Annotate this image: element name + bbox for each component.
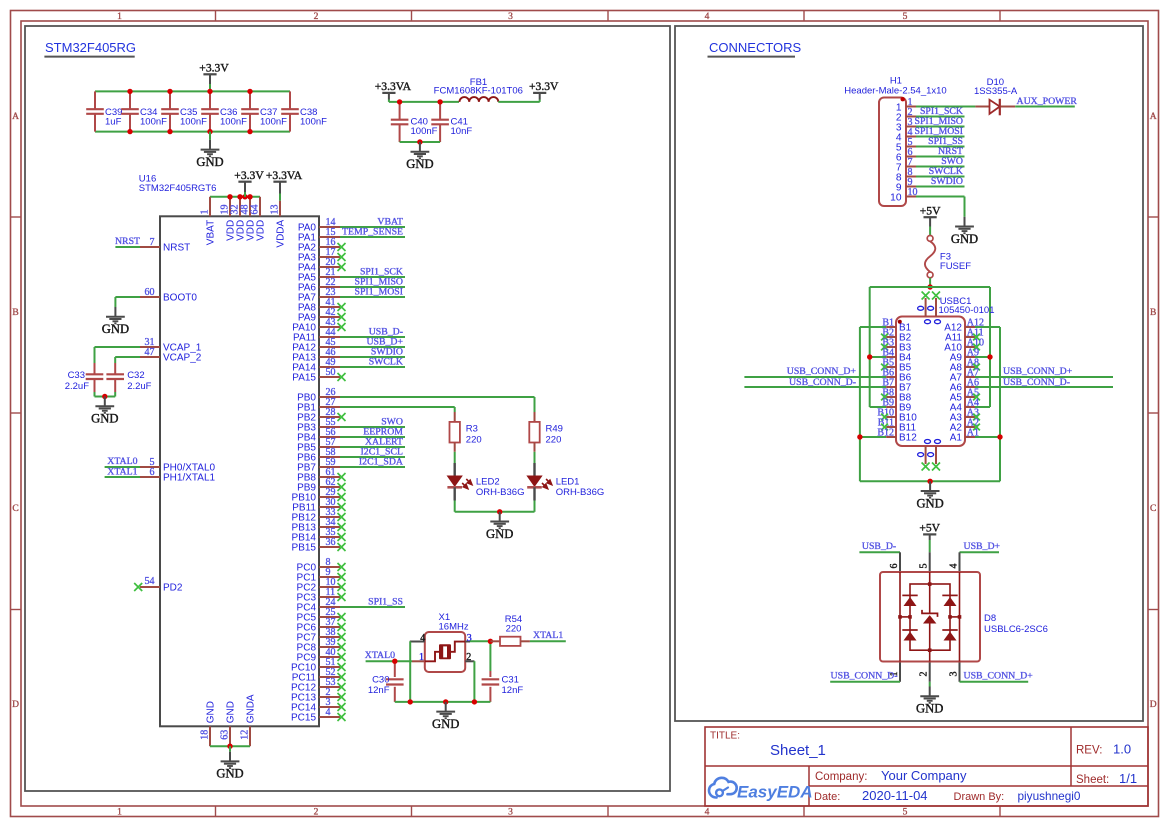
- no-connect PA15: [338, 373, 346, 381]
- capacitor C39: [86, 91, 122, 131]
- mcu pin PB15 36: [292, 537, 340, 553]
- resistor R54: [490, 614, 530, 646]
- ground crystal: [432, 702, 459, 731]
- usb pin B3: [882, 337, 911, 353]
- usb pin B6: [882, 367, 911, 383]
- usb pin A5: [950, 387, 979, 403]
- ground leds: [486, 512, 513, 541]
- no-connect PB9: [338, 483, 346, 491]
- wire +3.3V rail top of cap bank: [95, 90, 290, 92]
- wire +3.3V mcu stem: [244, 182, 246, 197]
- mcu pin PC10 51: [291, 657, 340, 673]
- diode D10 1SS355-A: [974, 77, 1018, 116]
- svg-text:Header-Male-2.54_1x10: Header-Male-2.54_1x10: [844, 85, 946, 96]
- left section title STM32F405RG: [44, 40, 136, 57]
- no-connect shield top: [922, 292, 940, 300]
- wire PA12 net USB_D+: [340, 346, 405, 348]
- svg-text:105450-0101: 105450-0101: [939, 305, 995, 316]
- crystal pin1 stub: [412, 660, 425, 662]
- svg-text:SPI1_MOSI: SPI1_MOSI: [355, 286, 403, 297]
- svg-text:4: 4: [705, 808, 710, 818]
- mcu pin PA12 45: [292, 337, 340, 353]
- power +3.3VA filter: [375, 80, 412, 93]
- svg-text:AUX_POWER: AUX_POWER: [1017, 96, 1078, 107]
- no-connect PB10: [338, 493, 346, 501]
- svg-text:4: 4: [949, 564, 960, 569]
- mcu pin PA9 42: [298, 307, 340, 323]
- wire PA6 net SPI1_MISO: [340, 286, 405, 288]
- led LED1: [527, 452, 604, 512]
- svg-text:XTAL1: XTAL1: [107, 466, 137, 477]
- junctions crystal circuit: [392, 639, 493, 705]
- capacitor C30: [368, 661, 404, 702]
- title block REV: [1076, 742, 1131, 757]
- svg-text:PA15: PA15: [292, 372, 316, 383]
- usb pin B11: [878, 417, 917, 433]
- svg-text:A: A: [12, 112, 19, 122]
- wire PC4 net SPI1_SS: [340, 606, 405, 608]
- no-connect shield bottom: [922, 463, 940, 471]
- svg-text:18: 18: [199, 730, 210, 740]
- wire USB_CONN_D- from D8 pin1: [830, 681, 900, 683]
- usb pin A2: [950, 417, 979, 433]
- wire USB_CONN_D+ right: [975, 376, 1113, 378]
- mcu pin VCAP_1 31: [140, 337, 202, 354]
- header H1 pin 9: [896, 177, 916, 193]
- svg-text:TITLE:: TITLE:: [710, 731, 740, 742]
- wire SPI1_SS from PC4: [0, 0, 1, 1]
- svg-text:5: 5: [919, 564, 930, 569]
- resistor R49: [529, 412, 563, 452]
- svg-text:2.2uF: 2.2uF: [127, 381, 151, 392]
- svg-text:3: 3: [467, 633, 472, 644]
- wire PA7 net SPI1_MOSI: [340, 296, 405, 298]
- svg-text:1.0: 1.0: [1113, 742, 1131, 757]
- usb pin A1: [950, 427, 979, 443]
- led LED2: [447, 452, 524, 512]
- capacitor C40: [391, 102, 438, 142]
- svg-text:100nF: 100nF: [260, 116, 287, 127]
- svg-text:1: 1: [199, 210, 210, 215]
- svg-text:6: 6: [889, 564, 900, 569]
- wire +5V to D8 pin5: [929, 534, 931, 552]
- title block Company: [815, 768, 967, 783]
- svg-text:220: 220: [546, 435, 562, 446]
- mcu pin PC6 37: [297, 617, 340, 633]
- mcu U16 reference labels: [139, 174, 217, 194]
- svg-text:SWCLK: SWCLK: [369, 356, 403, 367]
- capacitor C37: [241, 91, 287, 131]
- mcu bottom pin GNDA 12: [239, 694, 256, 746]
- capacitor C35: [161, 91, 207, 131]
- wire +3.3V stem: [209, 74, 211, 91]
- wire USB_CONN_D+ left: [744, 376, 886, 378]
- svg-text:C: C: [1150, 504, 1156, 514]
- svg-text:GND: GND: [406, 157, 433, 171]
- svg-text:+3.3V: +3.3V: [529, 80, 559, 93]
- svg-text:ORH-B36G: ORH-B36G: [476, 487, 525, 498]
- header H1 pin 4: [896, 127, 916, 143]
- no-connect PC5: [338, 613, 346, 621]
- mcu top pin VDD 19: [219, 197, 236, 241]
- svg-text:USB_CONN_D-: USB_CONN_D-: [831, 670, 898, 681]
- svg-text:D: D: [1150, 700, 1157, 710]
- wire PA14 net SWCLK: [340, 366, 405, 368]
- mcu pin PA8 41: [298, 297, 340, 313]
- svg-text:2: 2: [314, 808, 319, 818]
- ground USBC1: [916, 481, 943, 510]
- svg-text:SWDIO: SWDIO: [931, 176, 963, 187]
- svg-text:STM32F405RG: STM32F405RG: [45, 40, 136, 55]
- mcu top pin VDDA 13: [269, 182, 286, 248]
- svg-text:50: 50: [326, 367, 336, 378]
- wire mcu ground rail: [210, 745, 250, 747]
- no-connect PB15: [338, 543, 346, 551]
- mcu pin BOOT0 60: [140, 287, 197, 304]
- mcu pin PB2 28: [297, 407, 340, 423]
- left section box STM32F405RG: [25, 26, 670, 791]
- ground cap bank: [196, 132, 223, 169]
- mcu pin PB14 35: [292, 527, 340, 543]
- svg-text:2.2uF: 2.2uF: [65, 381, 89, 392]
- no-connect PC6: [338, 623, 346, 631]
- svg-text:VCAP_2: VCAP_2: [163, 353, 202, 364]
- header H1 pin 6: [896, 147, 916, 163]
- junctions on cap bank rails: [127, 89, 252, 135]
- svg-text:USB_D+: USB_D+: [964, 541, 1001, 552]
- frame column ticks bottom: [216, 806, 1001, 817]
- svg-text:PD2: PD2: [163, 583, 183, 594]
- svg-text:TEMP_SENSE: TEMP_SENSE: [342, 226, 403, 237]
- usb pin B5: [882, 357, 911, 373]
- no-connect B8: [881, 394, 888, 401]
- svg-text:+3.3V: +3.3V: [199, 62, 229, 75]
- no-connect PC1: [338, 573, 346, 581]
- svg-text:XTAL1: XTAL1: [533, 630, 563, 641]
- svg-text:7: 7: [150, 237, 155, 248]
- svg-text:GND: GND: [486, 527, 513, 541]
- svg-text:GND: GND: [102, 322, 129, 336]
- wire +5V to fuse: [929, 217, 931, 235]
- svg-text:D: D: [12, 700, 19, 710]
- svg-text:B12: B12: [877, 427, 894, 438]
- mcu pin VCAP_2 47: [140, 347, 202, 364]
- wire XTAL0 stub: [105, 466, 140, 468]
- usb pin B1: [882, 317, 911, 333]
- svg-text:BOOT0: BOOT0: [163, 293, 197, 304]
- mcu pin PA3 17: [298, 247, 340, 263]
- wire +3.3VA stem and rail: [389, 93, 459, 102]
- wire VBUS box around USBC1: [870, 287, 990, 407]
- mcu pin PB9 62: [297, 477, 340, 493]
- svg-text:NRST: NRST: [163, 243, 190, 254]
- capacitor C32: [106, 363, 151, 392]
- mcu top pin VDD 64: [249, 197, 266, 241]
- mcu pin PA14 49: [292, 357, 340, 373]
- mcu bottom pin GND 63: [219, 701, 236, 746]
- mcu pin PB10 29: [292, 487, 340, 503]
- wire crystal pin4 to ground rail: [409, 641, 411, 702]
- mcu pin PC15 4: [291, 707, 340, 723]
- svg-text:100nF: 100nF: [411, 126, 438, 137]
- junction fuse rail: [927, 284, 932, 289]
- svg-text:PB15: PB15: [292, 542, 317, 553]
- svg-text:CONNECTORS: CONNECTORS: [709, 40, 802, 55]
- mcu pin PC14 3: [291, 697, 340, 713]
- wire fuse to usb connector rail: [929, 278, 931, 287]
- capacitor C38: [281, 91, 327, 131]
- svg-text:USBLC6-2SC6: USBLC6-2SC6: [984, 624, 1048, 635]
- wire VDD top bus: [210, 196, 260, 198]
- svg-text:1uF: 1uF: [105, 116, 122, 127]
- no-connect PC0: [338, 563, 346, 571]
- no-connect PB11: [338, 503, 346, 511]
- wire VCAP ground rail: [95, 392, 116, 397]
- svg-text:GND: GND: [216, 767, 243, 781]
- mcu pin PA1 15: [298, 227, 340, 243]
- svg-text:4: 4: [326, 707, 331, 718]
- svg-text:GND: GND: [951, 232, 978, 246]
- power +5V header area: [920, 205, 941, 218]
- wire H1 pin4: [916, 136, 965, 138]
- svg-text:LED1: LED1: [556, 477, 580, 488]
- svg-text:A: A: [1150, 112, 1157, 122]
- mcu pin PA0 14: [298, 217, 340, 233]
- wire H1 pin8: [916, 176, 965, 178]
- right section box CONNECTORS: [675, 26, 1143, 721]
- ground BOOT0: [102, 307, 129, 336]
- wire PB4 net EEPROM: [340, 436, 405, 438]
- wire D10 to AUX_POWER: [1015, 106, 1075, 108]
- wire FB1 to +3.3V: [498, 101, 539, 103]
- mcu U16 STM32F405RGT6 body: [160, 216, 319, 726]
- svg-text:B: B: [12, 308, 18, 318]
- wire VCAP_2 to C32: [115, 357, 140, 363]
- header H1 pin 7: [896, 157, 916, 173]
- no-connect A10: [973, 344, 980, 351]
- usb pin A4: [950, 397, 979, 413]
- no-connect PA3: [338, 253, 346, 261]
- svg-text:1: 1: [117, 12, 122, 22]
- mcu pin PA4 20: [298, 257, 340, 273]
- mcu pin PA5 21: [298, 267, 340, 283]
- usb pin A7: [950, 367, 979, 383]
- usb pin B7: [882, 377, 911, 393]
- svg-text:XTAL0: XTAL0: [365, 650, 395, 661]
- mcu pin PB5 57: [297, 437, 340, 453]
- ground VCAP: [91, 397, 118, 426]
- svg-text:2: 2: [314, 12, 319, 22]
- no-connect PC10: [338, 663, 346, 671]
- ground D8: [916, 687, 943, 716]
- svg-text:10nF: 10nF: [451, 126, 473, 137]
- svg-text:NRST: NRST: [115, 236, 140, 247]
- mcu top pin VBAT 1: [199, 197, 216, 245]
- wire H1 pin7: [916, 166, 965, 168]
- no-connect PC13: [338, 693, 346, 701]
- capacitor C33: [65, 363, 104, 392]
- svg-text:I2C1_SDA: I2C1_SDA: [359, 456, 403, 467]
- svg-text:60: 60: [145, 287, 155, 298]
- svg-text:USB_CONN_D+: USB_CONN_D+: [787, 366, 857, 377]
- usb pin A10: [944, 337, 984, 353]
- svg-text:USB_CONN_D+: USB_CONN_D+: [1003, 366, 1073, 377]
- no-connect A11: [973, 334, 980, 341]
- no-connect A3: [973, 414, 980, 421]
- mcu pin PC13 2: [291, 687, 340, 703]
- mcu pin PB12 33: [292, 507, 340, 523]
- svg-text:C32: C32: [127, 370, 144, 381]
- usb pin B4: [882, 347, 911, 363]
- svg-text:5: 5: [903, 808, 908, 818]
- wire H1 pin1 to D10: [916, 106, 975, 108]
- svg-text:SPI1_SS: SPI1_SS: [368, 596, 403, 607]
- svg-text:USB_D-: USB_D-: [862, 541, 896, 552]
- wire filter gnd rail: [400, 141, 441, 143]
- svg-text:VDDA: VDDA: [275, 219, 286, 247]
- wire H1 pin2: [916, 116, 965, 118]
- wire USB_CONN_D+ from D8 pin3: [960, 681, 1029, 683]
- usb connector USBC1 105450-0101 body: [896, 296, 995, 446]
- wire PB1 to R3: [340, 407, 455, 412]
- title block Date row: [814, 788, 1081, 803]
- power +5V D8: [919, 522, 940, 535]
- usb pin B10: [877, 407, 917, 423]
- no-connect B3: [881, 344, 888, 351]
- svg-text:2: 2: [919, 672, 930, 677]
- svg-text:C33: C33: [68, 370, 85, 381]
- frame column numbers bottom: [117, 808, 908, 818]
- wire H1 pin5: [916, 146, 965, 148]
- wire PA5 net SPI1_SCK: [340, 276, 405, 278]
- svg-text:USB_CONN_D-: USB_CONN_D-: [789, 377, 856, 388]
- wire PB0 to R49: [340, 397, 535, 412]
- mcu pin PC0 8: [297, 557, 340, 573]
- svg-text:GND: GND: [916, 496, 943, 510]
- svg-text:3: 3: [508, 808, 513, 818]
- usb pin A8: [950, 357, 979, 373]
- header H1 pin 10: [890, 187, 917, 203]
- no-connect PC14: [338, 703, 346, 711]
- svg-text:3: 3: [949, 672, 960, 677]
- wire crystal pin3 to R54 junction: [470, 640, 490, 642]
- svg-text:EasyEDA: EasyEDA: [737, 782, 813, 801]
- svg-text:FUSEF: FUSEF: [940, 261, 971, 272]
- wire NRST: [115, 246, 140, 248]
- mcu pin PC9 40: [297, 647, 340, 663]
- mcu pin PC3 11: [297, 587, 340, 603]
- usb pin A3: [950, 407, 979, 423]
- svg-text:+3.3VA: +3.3VA: [266, 169, 303, 182]
- svg-text:C30: C30: [372, 675, 389, 686]
- mcu pin PA13 46: [292, 347, 340, 363]
- svg-text:12nF: 12nF: [502, 685, 524, 696]
- ground mcu: [216, 746, 243, 781]
- mcu pin PH1/XTAL1 6: [140, 467, 215, 484]
- no-connect PC7: [338, 633, 346, 641]
- power +3.3V mcu: [234, 169, 264, 182]
- mcu pin PC12 53: [291, 677, 340, 693]
- no-connect PB13: [338, 523, 346, 531]
- svg-text:Drawn By:: Drawn By:: [954, 791, 1005, 803]
- svg-text:USB_CONN_D-: USB_CONN_D-: [1003, 377, 1070, 388]
- frame row letters right: [1150, 112, 1157, 710]
- mcu pin PB4 56: [297, 427, 340, 443]
- mcu pin PA11 44: [293, 327, 340, 343]
- ground H1 pin10: [951, 217, 978, 246]
- svg-text:100nF: 100nF: [220, 116, 247, 127]
- mcu pin PC7 38: [297, 627, 340, 643]
- no-connect B11: [881, 424, 888, 431]
- no-connect PC8: [338, 643, 346, 651]
- svg-text:GND: GND: [432, 717, 459, 731]
- wire crystal pin2 to ground rail: [473, 661, 475, 702]
- svg-text:+5V: +5V: [919, 522, 940, 535]
- no-connect B10: [881, 414, 888, 421]
- wire USB_CONN_D- right: [975, 386, 1113, 388]
- wire GND box around USBC1: [860, 327, 1000, 481]
- mcu pin PH0/XTAL0 5: [140, 457, 215, 474]
- wire VCAP_1 to C33: [95, 347, 141, 363]
- resistor R3: [450, 412, 482, 452]
- svg-text:36: 36: [326, 537, 336, 548]
- no-connect PA4: [338, 263, 346, 271]
- title block frame: [705, 727, 1148, 806]
- mcu pin PC2 10: [297, 577, 340, 593]
- wire PA1 net TEMP_SENSE: [340, 236, 405, 238]
- no-connect PB14: [338, 533, 346, 541]
- svg-text:Your Company: Your Company: [881, 768, 967, 783]
- mcu pin PB3 55: [297, 417, 340, 433]
- wire BOOT0 to ground: [115, 297, 140, 307]
- power +3.3V right of FB1: [529, 80, 559, 93]
- no-connect PB8: [338, 473, 346, 481]
- svg-text:3: 3: [508, 12, 513, 22]
- svg-text:4: 4: [705, 12, 710, 22]
- no-connect PD2: [134, 583, 142, 591]
- esd array D8 USBLC6-2SC6: [880, 552, 1048, 682]
- mcu pin PA6 22: [298, 277, 340, 293]
- mcu pin PC4 24: [297, 597, 340, 613]
- svg-text:GND: GND: [91, 412, 118, 426]
- svg-text:2: 2: [466, 652, 471, 663]
- power +3.3VA mcu: [266, 169, 303, 182]
- mcu pin PC8 39: [297, 637, 340, 653]
- crystal X1 16MHz: [410, 612, 475, 672]
- wire R54 to XTAL1: [530, 640, 566, 642]
- wire PB3 net SWO: [340, 426, 405, 428]
- svg-text:PH1/XTAL1: PH1/XTAL1: [163, 473, 215, 484]
- easyeda logo: [709, 778, 813, 802]
- power +3.3V cap bank: [199, 62, 229, 75]
- wire XTAL1 stub: [105, 476, 140, 478]
- svg-text:4: 4: [420, 633, 425, 644]
- no-connect PA8: [338, 303, 346, 311]
- svg-text:C31: C31: [502, 675, 519, 686]
- svg-text:USB_CONN_D+: USB_CONN_D+: [964, 670, 1034, 681]
- no-connect A8: [973, 364, 980, 371]
- mcu pin NRST 7: [140, 237, 190, 254]
- no-connect B2: [881, 334, 888, 341]
- svg-text:REV:: REV:: [1076, 745, 1102, 757]
- usb pin A12: [944, 317, 984, 333]
- mcu bottom pin GND 18: [199, 701, 216, 746]
- usb shield pins top: [918, 298, 941, 324]
- svg-text:D8: D8: [984, 613, 996, 624]
- svg-text:47: 47: [145, 347, 155, 358]
- frame row ticks right: [1148, 217, 1159, 610]
- svg-text:R49: R49: [546, 424, 563, 435]
